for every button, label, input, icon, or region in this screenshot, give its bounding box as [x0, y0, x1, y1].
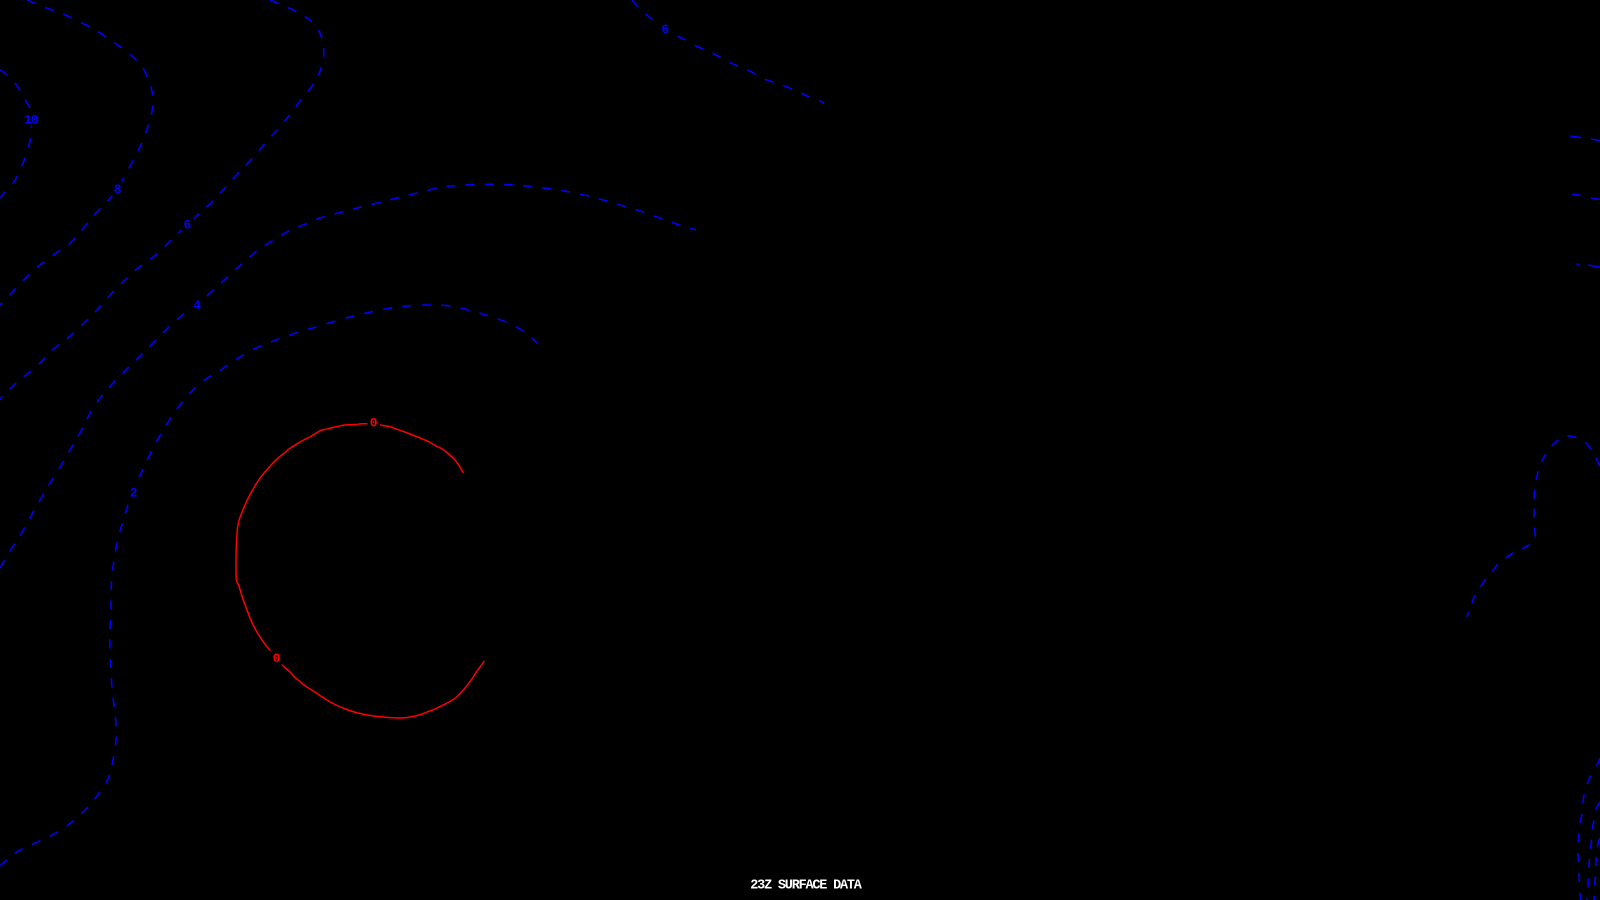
label gap for "2"	[128, 484, 141, 499]
svg-text:10: 10	[24, 112, 39, 127]
label gap for "6"	[659, 21, 672, 36]
contour segment bottom-right corner 1 (blue dashed)	[1578, 758, 1600, 900]
svg-text:23Z SURFACE DATA: 23Z SURFACE DATA	[750, 878, 863, 893]
svg-text:8: 8	[114, 182, 122, 197]
svg-text:0: 0	[370, 416, 378, 431]
contour level 0 (red solid, open circle)	[236, 424, 484, 718]
contour level 6 top-center segment (blue dashed)	[632, 0, 824, 103]
svg-text:4: 4	[193, 298, 201, 313]
svg-text:6: 6	[183, 217, 191, 232]
contour level 2 (blue dashed)	[0, 305, 537, 866]
contour segment bottom-right hook (blue dashed)	[1467, 436, 1600, 617]
contour level 6 left arc (blue dashed)	[0, 0, 324, 399]
label gap for "8"	[112, 182, 125, 196]
label gap for "0"	[368, 415, 381, 429]
contour segment bottom-right corner 2 (blue dashed)	[1587, 802, 1600, 900]
contour level 4 (blue dashed)	[0, 184, 696, 568]
contour level 10 (blue dashed)	[0, 70, 32, 199]
label gap for "4"	[191, 298, 204, 312]
svg-text:2: 2	[130, 485, 138, 500]
contour level 8 (blue dashed)	[0, 0, 153, 305]
contour segment bottom-right corner 3 (blue dashed)	[1594, 838, 1600, 900]
contour fragments at right edge (blue dashes)	[1570, 136, 1581, 138]
label gap for "0"	[271, 650, 284, 665]
svg-text:6: 6	[661, 22, 669, 37]
label gap for "6"	[182, 217, 194, 232]
label gap for "10"	[22, 111, 41, 127]
svg-text:0: 0	[273, 651, 281, 666]
